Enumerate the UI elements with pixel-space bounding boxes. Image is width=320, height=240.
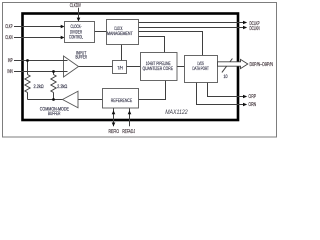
resistor R1 zigzag (25, 75, 30, 93)
junction dot common-mode node (52, 98, 55, 101)
arrowhead REFADJ up (128, 110, 132, 114)
svg-text:DATA PORT: DATA PORT (192, 66, 209, 72)
wire CLKP (14, 26, 61, 28)
svg-text:MANAGEMENT: MANAGEMENT (107, 31, 133, 37)
wire DCLKP (139, 22, 244, 24)
arrowhead CLKDIV (77, 18, 81, 22)
wire clock management to quantizer core (139, 37, 165, 53)
svg-text:CLKDIV: CLKDIV (70, 3, 81, 9)
svg-text:D0P/N–D9P/N: D0P/N–D9P/N (250, 62, 274, 68)
block U5 LVDS data port (185, 56, 218, 83)
svg-text:QUANTIZER CORE: QUANTIZER CORE (143, 66, 174, 72)
svg-text:10: 10 (224, 74, 228, 80)
wire T/H to quantizer core (127, 66, 141, 68)
wire reference to common-mode buffer input (78, 99, 103, 101)
arrowhead CLKP (61, 25, 65, 29)
svg-text:T/H: T/H (117, 65, 123, 71)
resistor R1 bottom lead (27, 93, 29, 100)
arrowhead CLKN (61, 36, 65, 40)
wire ORP (208, 83, 244, 97)
wire CLKN (14, 37, 61, 39)
wire DCLKN (139, 27, 244, 29)
wire quantizer core to LVDS data port (177, 66, 185, 68)
arrowhead REFIO down (112, 123, 116, 127)
svg-text:MAX1122: MAX1122 (165, 109, 188, 116)
resistor R2 top lead (53, 72, 55, 75)
wire CLKDIV into chip (78, 8, 80, 18)
svg-text:REFIO: REFIO (109, 129, 120, 135)
wire INN (14, 71, 64, 73)
junction dot INP (26, 59, 29, 62)
block U3 T/H (113, 61, 127, 74)
arrowhead DCLKN (243, 26, 247, 30)
wire clock-divider to clock management (95, 31, 107, 33)
junction dot INN (52, 70, 55, 73)
bus arrow 10-bit output (218, 59, 248, 68)
resistor R1 top lead (27, 61, 29, 75)
arrowhead DCLKP (243, 21, 247, 25)
svg-text:CONTROL: CONTROL (69, 35, 83, 41)
wire input buffer to T/H (78, 66, 113, 68)
block U2 clock management (107, 20, 139, 45)
wire REFIO (113, 108, 115, 126)
block U1 clock-divider control (65, 22, 95, 43)
wire clock management to T/H (121, 45, 123, 61)
op-amp input buffer (62, 50, 87, 77)
svg-text:CLKP: CLKP (5, 24, 13, 30)
outer frame (3, 3, 277, 138)
svg-text:INP: INP (8, 58, 13, 64)
wire INP (14, 60, 64, 62)
wire resistor bottoms to common-mode buffer output (28, 99, 63, 101)
svg-text:REFADJ: REFADJ (122, 129, 135, 135)
svg-text:BUFFER: BUFFER (48, 111, 61, 117)
arrowhead ORN (243, 103, 247, 107)
svg-text:2.2kΩ: 2.2kΩ (57, 84, 67, 90)
svg-text:DCLKN: DCLKN (250, 26, 260, 32)
wire ORN (197, 83, 244, 105)
svg-text:2.2kΩ: 2.2kΩ (34, 84, 44, 90)
svg-text:BUFFER: BUFFER (76, 54, 88, 60)
svg-text:REFERENCE: REFERENCE (111, 98, 133, 104)
op-amp common-mode buffer (40, 91, 78, 117)
block U4 10-bit pipeline quantizer core (141, 53, 178, 81)
bus slash (222, 59, 233, 73)
resistor R2 zigzag (51, 75, 56, 93)
wire reference to quantizer core (139, 81, 166, 100)
chip boundary MAX1122 (23, 14, 239, 121)
svg-text:ORP: ORP (248, 94, 256, 100)
arrowhead REFIO up (112, 110, 116, 114)
svg-text:CLKN: CLKN (5, 35, 12, 41)
resistor R2 bottom lead (53, 93, 55, 100)
wire clock management to LVDS data port (139, 32, 203, 56)
block U6 reference (103, 89, 139, 109)
wire REFADJ (129, 108, 131, 126)
svg-text:ORN: ORN (248, 102, 256, 108)
arrowhead ORP (243, 95, 247, 99)
svg-text:INN: INN (7, 69, 12, 75)
